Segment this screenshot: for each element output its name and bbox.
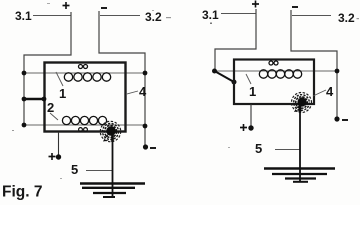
svg-text:1: 1 — [59, 86, 66, 101]
svg-text:Fig. 7: Fig. 7 — [2, 184, 42, 201]
svg-text:3.1: 3.1 — [15, 9, 32, 23]
svg-text:3.1: 3.1 — [202, 8, 219, 22]
svg-text:2: 2 — [47, 100, 54, 115]
svg-text:1: 1 — [249, 84, 256, 99]
svg-text:4: 4 — [326, 84, 334, 99]
svg-text:5: 5 — [255, 141, 262, 156]
svg-text:4: 4 — [139, 84, 147, 99]
svg-text:3.2: 3.2 — [145, 10, 162, 24]
svg-text:5: 5 — [71, 162, 78, 177]
svg-text:3.2: 3.2 — [338, 11, 355, 25]
